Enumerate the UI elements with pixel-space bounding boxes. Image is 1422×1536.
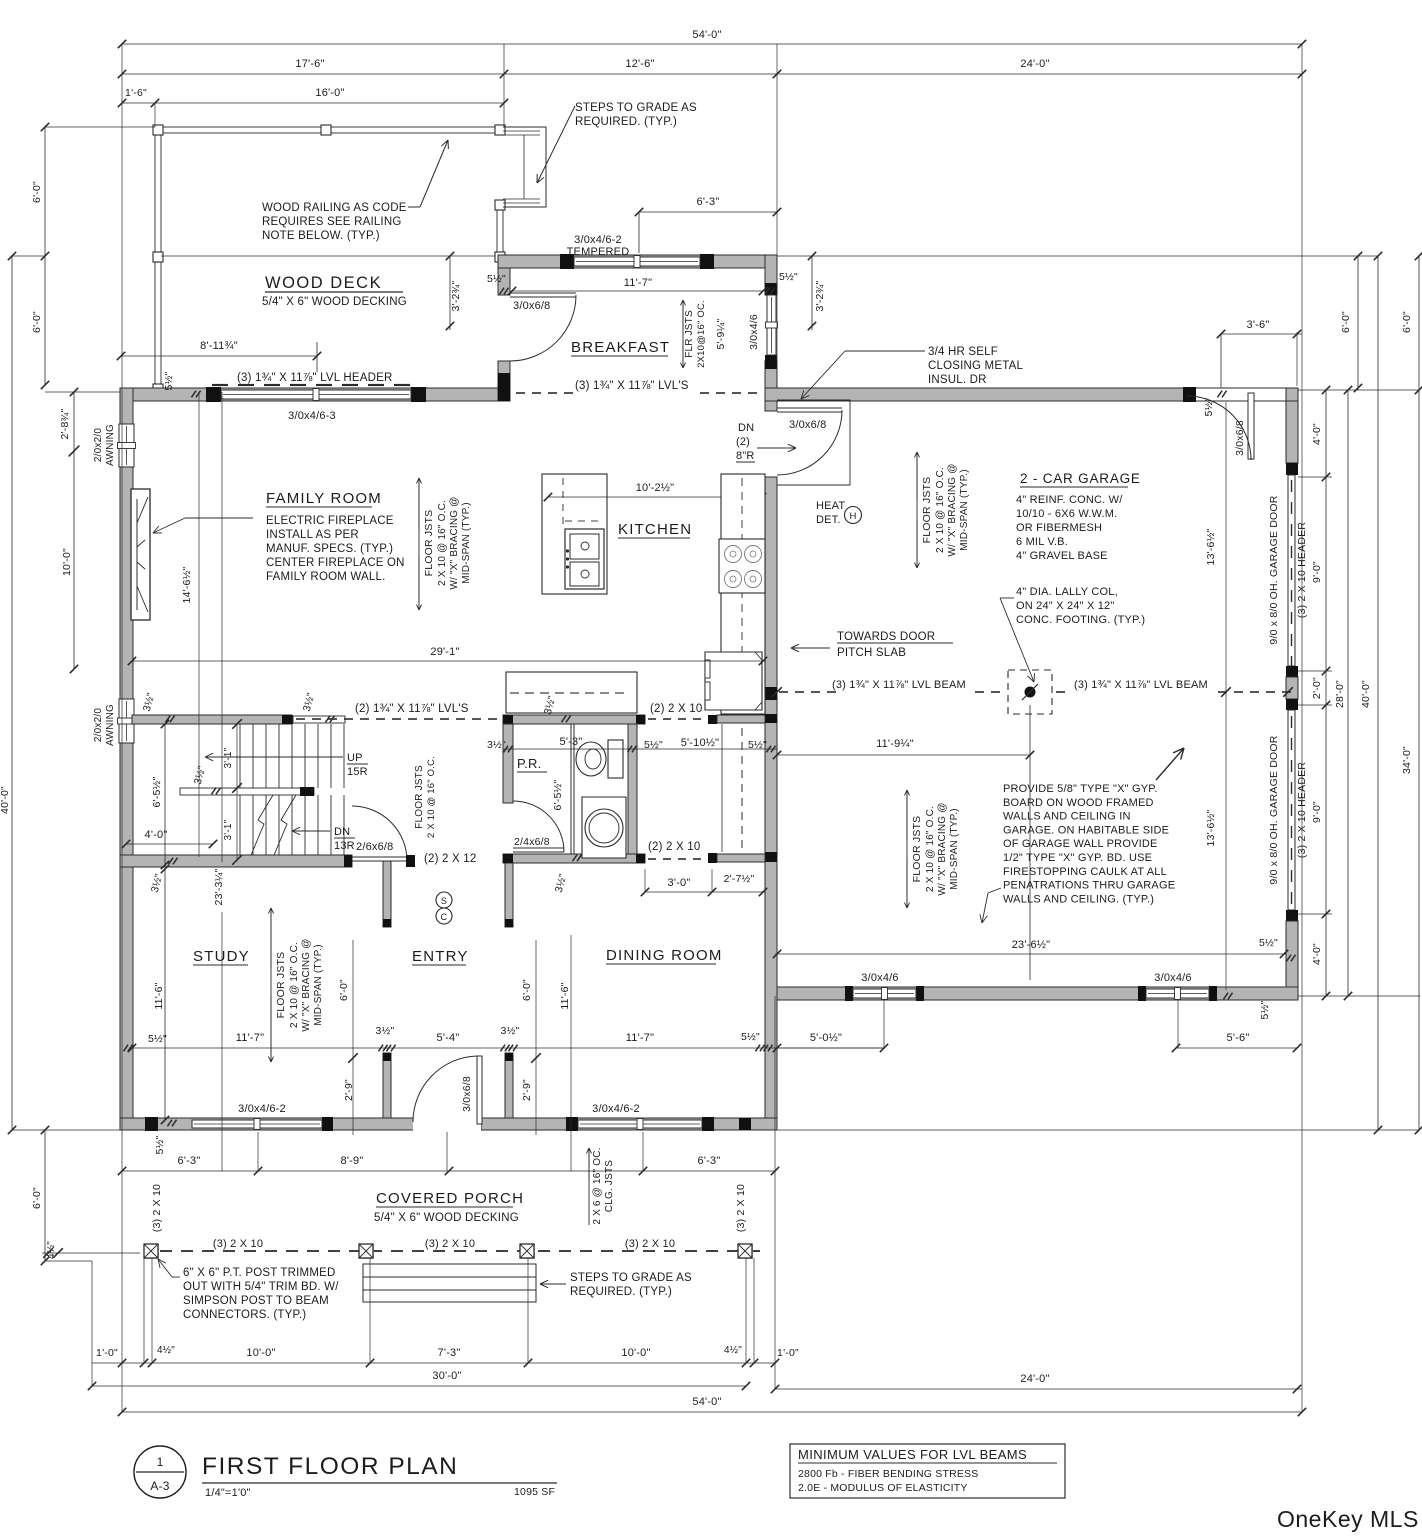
dim 10'-2 1/2 kitchen: [548, 496, 765, 498]
svg-text:1'-6": 1'-6": [125, 87, 147, 99]
svg-text:MID-SPAN (TYP.): MID-SPAN (TYP.): [949, 808, 960, 890]
svg-text:FAMILY ROOM: FAMILY ROOM: [266, 490, 382, 507]
svg-text:NOTE BELOW. (TYP.): NOTE BELOW. (TYP.): [262, 230, 380, 242]
svg-text:(3) 2 X 10: (3) 2 X 10: [151, 1184, 163, 1232]
porch bottom dim row 1: [92, 1362, 775, 1364]
svg-text:W/ "X" BRACING @: W/ "X" BRACING @: [449, 496, 460, 589]
smoke detector symbols entry: [436, 892, 452, 908]
svg-text:4" GRAVEL BASE: 4" GRAVEL BASE: [1016, 550, 1108, 562]
svg-text:1095 SF: 1095 SF: [514, 1486, 555, 1498]
svg-text:CONNECTORS. (TYP.): CONNECTORS. (TYP.): [183, 1309, 306, 1321]
svg-text:P.R.: P.R.: [517, 756, 541, 771]
svg-text:6'-0": 6'-0": [338, 979, 350, 1001]
svg-text:FLR JSTS: FLR JSTS: [684, 310, 695, 358]
svg-text:4'-0": 4'-0": [145, 829, 168, 841]
front door 3/0x6/8: [477, 1056, 482, 1124]
window 3/0x4/6 breakfast east: [767, 295, 776, 355]
svg-text:6'-0": 6'-0": [31, 181, 43, 203]
svg-text:16'-0": 16'-0": [315, 87, 344, 99]
svg-text:(3) 2 X 10: (3) 2 X 10: [425, 1238, 475, 1250]
svg-text:2 - CAR GARAGE: 2 - CAR GARAGE: [1020, 471, 1141, 486]
svg-text:10'-0": 10'-0": [621, 1347, 650, 1359]
svg-text:2.0E - MODULUS OF ELASTICITY: 2.0E - MODULUS OF ELASTICITY: [798, 1482, 968, 1494]
leader gyp note: [988, 888, 1001, 893]
floor jsts note study: [270, 908, 272, 1062]
svg-text:CLOSING METAL: CLOSING METAL: [928, 360, 1023, 372]
svg-text:INSTALL AS PER: INSTALL AS PER: [266, 529, 359, 541]
svg-text:3'-6": 3'-6": [1247, 319, 1270, 331]
right dim 28'-0: [1347, 390, 1349, 996]
dim 29'-1 line: [132, 660, 765, 662]
svg-text:PENATRATIONS THRU GARAGE: PENATRATIONS THRU GARAGE: [1003, 880, 1175, 892]
svg-text:2'-9": 2'-9": [343, 1079, 355, 1101]
lvl beam dashed line garage: [779, 691, 788, 693]
svg-text:ELECTRIC FIREPLACE: ELECTRIC FIREPLACE: [266, 515, 394, 527]
wall: breakfast north: [498, 255, 777, 268]
wall: powder room west: [503, 724, 513, 803]
svg-text:24'-0": 24'-0": [1020, 58, 1049, 70]
svg-text:1'-0": 1'-0": [777, 1347, 799, 1359]
svg-text:6'-3": 6'-3": [178, 1155, 201, 1167]
svg-text:6'-0": 6'-0": [1401, 311, 1413, 333]
svg-text:3/0x4/6-2: 3/0x4/6-2: [592, 1103, 640, 1115]
svg-text:ON 24" X 24" X 12": ON 24" X 24" X 12": [1016, 600, 1114, 612]
svg-text:WALLS AND CEILING. (TYP.): WALLS AND CEILING. (TYP.): [1003, 893, 1154, 905]
wood deck left railing: [155, 127, 161, 390]
dim line interior south rooms: [132, 1047, 885, 1049]
corner black dining SE: [739, 1118, 751, 1130]
svg-text:3/0x6/8: 3/0x6/8: [789, 419, 826, 431]
svg-text:2/4x6/8: 2/4x6/8: [514, 836, 550, 848]
porch steps: [363, 1264, 536, 1302]
svg-text:1/2" TYPE "X" GYP. BD. USE: 1/2" TYPE "X" GYP. BD. USE: [1003, 852, 1152, 864]
garage door 2 (9/0x8/0): [1288, 710, 1295, 910]
stair break line: [249, 795, 273, 860]
svg-text:(3) 2 X 10: (3) 2 X 10: [625, 1238, 675, 1250]
svg-text:A-3: A-3: [150, 1479, 169, 1493]
wall: breakfast east: [765, 255, 777, 295]
svg-text:23'-6½": 23'-6½": [1012, 939, 1051, 951]
svg-text:CENTER FIREPLACE ON: CENTER FIREPLACE ON: [266, 557, 405, 569]
svg-text:3'-2¾": 3'-2¾": [814, 281, 826, 312]
svg-text:3/0x6/8: 3/0x6/8: [1234, 420, 1246, 456]
svg-text:6" X 6" P.T. POST TRIMMED: 6" X 6" P.T. POST TRIMMED: [183, 1267, 335, 1279]
svg-text:54'-0": 54'-0": [692, 29, 721, 41]
washer: [582, 797, 626, 858]
svg-text:3/0x4/6: 3/0x4/6: [861, 972, 898, 984]
svg-text:5½": 5½": [1259, 937, 1278, 949]
svg-text:(2) 2 X 10: (2) 2 X 10: [650, 703, 703, 715]
awning window west upper: [119, 424, 134, 467]
svg-text:5'-3": 5'-3": [560, 736, 583, 748]
hall lines: [721, 724, 723, 852]
svg-text:3/0x4/6-3: 3/0x4/6-3: [288, 410, 336, 422]
svg-text:WOOD RAILING AS CODE: WOOD RAILING AS CODE: [262, 202, 407, 214]
dim 6'-3 breakfast top: [639, 211, 777, 213]
svg-text:24'-0": 24'-0": [1020, 1373, 1049, 1385]
dim third row top: [122, 102, 504, 104]
range with burners: [719, 539, 765, 593]
note steps to grade porch: [540, 1283, 566, 1285]
svg-text:12'-6": 12'-6": [625, 58, 654, 70]
lvl dashed line breakfast: [700, 392, 709, 394]
svg-text:AWNING: AWNING: [105, 424, 116, 466]
stair DN arrow: [292, 830, 330, 832]
svg-text:15R: 15R: [347, 766, 368, 778]
svg-text:13'-6½": 13'-6½": [1205, 528, 1217, 565]
wall: powder room north: [503, 715, 645, 724]
svg-text:2800 Fb - FIBER BENDING STRE: 2800 Fb - FIBER BENDING STRESS: [798, 1468, 978, 1480]
svg-text:3/0x6/8: 3/0x6/8: [513, 300, 550, 312]
kitchen sink double bowl: [565, 529, 604, 589]
svg-text:2 X 10 @ 16" O.C.: 2 X 10 @ 16" O.C.: [925, 806, 936, 892]
left dim 11'-6 study: [164, 869, 166, 1120]
svg-text:8'-9": 8'-9": [341, 1155, 364, 1167]
svg-text:W/ "X" BRACING @: W/ "X" BRACING @: [937, 802, 948, 895]
svg-text:STEPS TO GRADE AS: STEPS TO GRADE AS: [570, 1272, 692, 1284]
front door opening: [413, 1116, 481, 1132]
svg-text:6'-0": 6'-0": [521, 979, 533, 1001]
wall: west exterior: [120, 388, 133, 1130]
svg-text:FLOOR JSTS: FLOOR JSTS: [275, 952, 287, 1019]
svg-text:9/0 x 8/0 OH. GARAGE DOOR: 9/0 x 8/0 OH. GARAGE DOOR: [1268, 495, 1280, 644]
svg-text:3'-1": 3'-1": [223, 819, 234, 840]
dim 8'-11 3/4 deck: [121, 355, 317, 357]
svg-text:CLG. JSTS: CLG. JSTS: [604, 1160, 615, 1212]
awning window west lower: [119, 699, 134, 743]
svg-text:5'-10½": 5'-10½": [681, 737, 720, 749]
svg-text:W/ "X" BRACING @: W/ "X" BRACING @: [301, 938, 312, 1031]
porch left dim 6'-0: [44, 1130, 46, 1261]
svg-text:4'-0": 4'-0": [1311, 943, 1323, 965]
deck steps to grade (top right): [503, 127, 546, 207]
svg-text:7'-3": 7'-3": [438, 1347, 461, 1359]
garage door 1 (9/0x8/0): [1288, 475, 1295, 666]
svg-text:3/0x4/6: 3/0x4/6: [1154, 972, 1191, 984]
svg-text:PROVIDE 5/8" TYPE "X" GYP.: PROVIDE 5/8" TYPE "X" GYP.: [1003, 783, 1158, 795]
wall: garage west / dining east: [765, 401, 777, 411]
dim 5'-6 garage south right: [1176, 1047, 1297, 1049]
leader lally: [1000, 597, 1014, 599]
svg-text:54'-0": 54'-0": [692, 1396, 721, 1408]
svg-text:INSUL. DR: INSUL. DR: [928, 374, 987, 386]
svg-text:6'-0": 6'-0": [31, 311, 43, 333]
stair top rail: [293, 716, 345, 723]
floor jsts note family: [418, 478, 420, 610]
door 2/6x6/8 stairs: [352, 806, 407, 861]
dim 3'-0 2'-7 dining top: [645, 891, 765, 893]
garage north-east corner: [1286, 388, 1298, 401]
svg-text:BREAKFAST: BREAKFAST: [571, 339, 670, 356]
left dim 6'-0 deck pair: [44, 127, 46, 385]
wall: house south: [120, 1118, 545, 1130]
kitchen island counter: [542, 474, 607, 594]
ext line 23'-3 1/4: [221, 392, 223, 862]
svg-text:6'-3": 6'-3": [698, 1155, 721, 1167]
svg-text:KITCHEN: KITCHEN: [618, 521, 692, 538]
svg-text:11'-6": 11'-6": [559, 982, 571, 1009]
svg-text:40'-0": 40'-0": [0, 786, 11, 814]
svg-text:FLOOR JSTS: FLOOR JSTS: [423, 510, 435, 577]
svg-text:5½": 5½": [487, 273, 506, 285]
svg-text:MID-SPAN (TYP.): MID-SPAN (TYP.): [959, 469, 970, 551]
entry east stubs: [505, 861, 513, 927]
wall: family room south: [132, 715, 292, 724]
right dim 34'-0: [1418, 256, 1420, 1130]
svg-text:6 MIL V.B.: 6 MIL V.B.: [1016, 536, 1068, 548]
svg-text:TOWARDS DOOR: TOWARDS DOOR: [837, 631, 935, 643]
svg-text:2'-7½": 2'-7½": [724, 873, 755, 885]
wall: garage east upper segment: [1286, 401, 1298, 463]
window 3/0x4/6-2 tempered: [574, 257, 700, 266]
svg-text:(3) 1¾" X 11⅞" LVL'S: (3) 1¾" X 11⅞" LVL'S: [575, 380, 689, 392]
right ext lines: [1298, 389, 1420, 391]
kitchen east counter: [721, 474, 765, 714]
svg-text:STUDY: STUDY: [193, 948, 250, 965]
svg-text:FAMILY ROOM WALL.: FAMILY ROOM WALL.: [266, 571, 386, 583]
svg-text:8"R: 8"R: [736, 450, 755, 462]
svg-text:11'-7": 11'-7": [236, 1032, 264, 1044]
svg-text:11'-7": 11'-7": [624, 277, 652, 289]
toilet: [576, 742, 606, 776]
svg-text:2 X 10 @ 16" O.C.: 2 X 10 @ 16" O.C.: [935, 467, 946, 553]
left dim 6'-5 1/2 stairs: [164, 724, 166, 865]
svg-text:5½": 5½": [148, 1033, 167, 1045]
wall: breakfast west: [498, 268, 510, 295]
window 3/0x4/6-2 study south: [322, 1117, 333, 1131]
leader porch post note: [172, 1276, 180, 1278]
svg-text:9'-0": 9'-0": [1311, 561, 1323, 583]
door 2/4x6/8 powder room: [513, 801, 564, 852]
floor jsts note garage top: [916, 452, 918, 568]
svg-text:AWNING: AWNING: [105, 704, 116, 746]
svg-text:1'-0": 1'-0": [96, 1347, 118, 1359]
svg-text:FIRST FLOOR PLAN: FIRST FLOOR PLAN: [202, 1453, 458, 1480]
svg-text:5½": 5½": [163, 371, 175, 390]
dim 5'-0 1/2 garage south: [777, 1047, 884, 1049]
svg-text:OR FIBERMESH: OR FIBERMESH: [1016, 522, 1102, 534]
header dashes above family window: [212, 384, 228, 386]
leader: steps to grade note (top): [537, 106, 575, 183]
svg-text:2'-9": 2'-9": [521, 1079, 533, 1101]
svg-text:H: H: [849, 511, 856, 522]
svg-text:1/4"=1'0": 1/4"=1'0": [205, 1487, 251, 1499]
dim 3'-1 stair labels: [236, 724, 238, 860]
svg-text:(2): (2): [736, 436, 750, 448]
right dim 40'-0: [1377, 256, 1379, 1130]
title circle 1/A-3: [134, 1446, 186, 1498]
svg-text:10'-0": 10'-0": [61, 548, 73, 576]
svg-text:5'-4": 5'-4": [437, 1032, 460, 1044]
svg-text:5'-6": 5'-6": [1227, 1032, 1250, 1044]
svg-text:14'-6½": 14'-6½": [181, 566, 193, 603]
minimum values box: [790, 1444, 1065, 1498]
dim 3'-2 3/4 left of breakfast: [449, 256, 451, 330]
svg-text:13R: 13R: [334, 840, 355, 852]
wall: garage east lower segment: [1286, 910, 1298, 921]
door 3/0x6/8 breakfast: [510, 292, 576, 294]
wall: powder room south: [503, 854, 645, 863]
svg-text:WOOD DECK: WOOD DECK: [265, 274, 382, 292]
svg-text:3'-1": 3'-1": [223, 747, 234, 768]
wall: garage south: [765, 987, 1298, 1000]
svg-text:3/0x6/8: 3/0x6/8: [461, 1076, 473, 1112]
beam (2)2x10 lower dashes: [648, 858, 656, 860]
svg-text:C: C: [441, 912, 448, 922]
dim 23'-6 1/2 garage: [775, 953, 1286, 955]
svg-text:(3) 1¾" X 11⅞" LVL BEAM: (3) 1¾" X 11⅞" LVL BEAM: [1074, 679, 1208, 691]
garage south windows: [845, 986, 853, 1001]
svg-text:TEMPERED: TEMPERED: [567, 246, 630, 258]
wall: between garage doors: [1286, 666, 1298, 677]
left dim awning/10ft chain: [73, 392, 75, 669]
big arrow garage lower right: [1156, 748, 1184, 780]
svg-text:3/0x4/6-2: 3/0x4/6-2: [574, 234, 622, 246]
svg-text:REQUIRED. (TYP.): REQUIRED. (TYP.): [575, 116, 677, 128]
dim 3'-2 3/4 right of breakfast: [811, 256, 813, 330]
wall: laundry east: [628, 724, 637, 854]
svg-text:3½": 3½": [501, 1025, 520, 1037]
svg-text:3'-2¾": 3'-2¾": [450, 281, 462, 312]
kitchen south counter / pantry: [506, 672, 637, 713]
svg-text:13'-6½": 13'-6½": [1205, 809, 1217, 846]
dim 11'-7 breakfast: [512, 290, 763, 292]
svg-text:5½": 5½": [154, 1135, 166, 1154]
svg-text:(2) 1¾" X 11⅞" LVL'S: (2) 1¾" X 11⅞" LVL'S: [355, 703, 469, 715]
svg-text:9/0 x 8/0 OH. GARAGE DOOR: 9/0 x 8/0 OH. GARAGE DOOR: [1268, 735, 1280, 884]
svg-text:34'-0": 34'-0": [1401, 746, 1413, 774]
svg-text:OUT WITH 5/4" TRIM BD. W/: OUT WITH 5/4" TRIM BD. W/: [183, 1281, 339, 1293]
svg-text:23'-3¼": 23'-3¼": [213, 868, 225, 905]
svg-text:30'-0": 30'-0": [432, 1370, 461, 1382]
porch beam dashed line: [160, 1250, 172, 1252]
dim 6'-0 right upper pair: [1357, 256, 1359, 390]
svg-text:5/4" X 6" WOOD DECKING: 5/4" X 6" WOOD DECKING: [374, 1212, 519, 1224]
svg-text:(3) 1¾" X 11⅞" LVL HEADER: (3) 1¾" X 11⅞" LVL HEADER: [237, 372, 393, 384]
dim 11'-9 1/4 to column: [777, 754, 1030, 756]
svg-text:5½": 5½": [1259, 1000, 1271, 1019]
svg-text:1: 1: [157, 1455, 164, 1469]
svg-text:2 X 10 @ 16" O.C.: 2 X 10 @ 16" O.C.: [437, 500, 448, 586]
svg-text:FLOOR JSTS: FLOOR JSTS: [921, 477, 933, 544]
window jambs family north: [206, 387, 221, 402]
leader: fireplace note: [185, 517, 253, 519]
svg-text:4½": 4½": [157, 1345, 175, 1356]
svg-text:CONC. FOOTING. (TYP.): CONC. FOOTING. (TYP.): [1016, 614, 1145, 626]
lally column symbol: [1008, 670, 1052, 714]
svg-text:DN: DN: [738, 422, 754, 434]
stair mid rail: [180, 788, 314, 795]
line through pr: [503, 748, 777, 750]
dim 30'-0 porch: [92, 1385, 746, 1387]
left dim 40'-0 overall: [11, 256, 13, 1130]
svg-text:(3) 2 X 10: (3) 2 X 10: [213, 1238, 263, 1250]
svg-text:10'-0": 10'-0": [246, 1347, 275, 1359]
svg-text:6'-3": 6'-3": [697, 196, 720, 208]
svg-text:5½": 5½": [779, 271, 798, 283]
svg-text:WALLS AND CEILING IN: WALLS AND CEILING IN: [1003, 811, 1131, 823]
svg-text:2 X 10 @ 16" O.C.: 2 X 10 @ 16" O.C.: [426, 756, 437, 838]
svg-text:MANUF. SPECS. (TYP.): MANUF. SPECS. (TYP.): [266, 543, 393, 555]
svg-text:5/4" X 6" WOOD DECKING: 5/4" X 6" WOOD DECKING: [262, 296, 407, 308]
dim 3'-6 garage top: [1221, 333, 1302, 335]
svg-text:2/0x2/0: 2/0x2/0: [93, 428, 104, 462]
door centerline ext: [446, 1132, 448, 1171]
svg-text:17'-6": 17'-6": [295, 58, 324, 70]
svg-text:4" DIA. LALLY COL,: 4" DIA. LALLY COL,: [1016, 586, 1118, 598]
garage entry door 3/0x6/8 with landing: [777, 400, 850, 485]
svg-text:11'-7": 11'-7": [626, 1032, 654, 1044]
svg-text:4" REINF. CONC. W/: 4" REINF. CONC. W/: [1016, 494, 1123, 506]
svg-text:DN: DN: [334, 826, 350, 838]
svg-text:2/6x6/8: 2/6x6/8: [356, 841, 393, 853]
svg-text:FLOOR JSTS: FLOOR JSTS: [911, 816, 923, 883]
svg-text:OF GARAGE WALL PROVIDE: OF GARAGE WALL PROVIDE: [1003, 838, 1158, 850]
dim 24'-0 bottom right: [775, 1388, 1302, 1390]
svg-text:3/0x4/6: 3/0x4/6: [748, 314, 760, 350]
svg-text:W/ "X" BRACING @: W/ "X" BRACING @: [947, 463, 958, 556]
fireplace bump-out: [131, 489, 150, 620]
wall: stair south / study north: [120, 855, 352, 867]
dim 4'-0 study: [126, 843, 213, 845]
stair treads upper flight: [239, 724, 241, 788]
svg-text:(2) 2 X 10: (2) 2 X 10: [648, 841, 701, 853]
porch ext verticals: [143, 1258, 145, 1363]
svg-text:DINING ROOM: DINING ROOM: [606, 947, 723, 964]
svg-text:40'-0": 40'-0": [1360, 680, 1372, 708]
svg-text:PITCH SLAB: PITCH SLAB: [837, 647, 906, 659]
svg-text:6'-5½": 6'-5½": [151, 777, 163, 808]
svg-text:REQUIRED. (TYP.): REQUIRED. (TYP.): [570, 1286, 672, 1298]
svg-text:5½": 5½": [1203, 397, 1215, 416]
svg-text:FIRESTOPPING CAULK AT ALL: FIRESTOPPING CAULK AT ALL: [1003, 866, 1167, 878]
svg-text:29'-1": 29'-1": [430, 646, 459, 658]
entry west stubs: [383, 861, 391, 927]
svg-text:6'-0": 6'-0": [1340, 311, 1352, 333]
svg-text:2 X 10 @ 16" O.C.: 2 X 10 @ 16" O.C.: [289, 942, 300, 1028]
svg-text:HEAT: HEAT: [816, 500, 845, 512]
garage interior extension line: [1225, 402, 1227, 990]
breakfast north window jambs: [560, 254, 574, 269]
dim 54'-0 top: [122, 43, 1302, 45]
deck mid line at 6ft: [161, 255, 1378, 257]
svg-text:GARAGE. ON HABITABLE SIDE: GARAGE. ON HABITABLE SIDE: [1003, 824, 1169, 836]
svg-text:STEPS TO GRADE AS: STEPS TO GRADE AS: [575, 102, 697, 114]
svg-text:BOARD ON WOOD FRAMED: BOARD ON WOOD FRAMED: [1003, 797, 1154, 809]
svg-text:9'-0": 9'-0": [1311, 801, 1323, 823]
dim 54'-0 bottom: [122, 1411, 1302, 1413]
svg-text:11'-9¼": 11'-9¼": [876, 738, 914, 750]
svg-text:3/4 HR SELF: 3/4 HR SELF: [928, 346, 998, 358]
svg-text:MID-SPAN (TYP.): MID-SPAN (TYP.): [461, 502, 472, 584]
top ext verticals: [121, 44, 123, 1412]
svg-text:10/10 - 6X6 W.W.M.: 10/10 - 6X6 W.W.M.: [1016, 508, 1117, 520]
left ext lines: [45, 391, 120, 393]
svg-text:4½": 4½": [724, 1345, 742, 1356]
window 3/0x4/6-3 family north: [221, 390, 411, 399]
svg-text:DET.: DET.: [816, 514, 841, 526]
window 3/0x4/6-2 dining south: [566, 1117, 578, 1131]
wall: family room north: [120, 388, 509, 401]
svg-text:10'-2½": 10'-2½": [636, 482, 675, 494]
svg-text:6'-5½": 6'-5½": [552, 780, 564, 811]
leader self closing door: [845, 350, 925, 352]
svg-text:COVERED PORCH: COVERED PORCH: [376, 1190, 524, 1207]
dim second row top: [122, 73, 1302, 75]
garage north door opening 3/0x6/8: [1196, 389, 1286, 391]
svg-text:5'-9¼": 5'-9¼": [715, 319, 727, 350]
svg-text:2 X 6 @ 16" OC.: 2 X 6 @ 16" OC.: [592, 1147, 603, 1224]
